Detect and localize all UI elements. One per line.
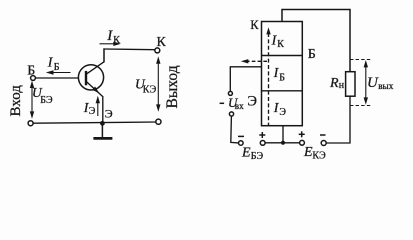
ground <box>93 123 112 138</box>
wire base to input <box>230 67 261 91</box>
svg-text:вых: вых <box>378 81 394 91</box>
node К label <box>250 18 259 32</box>
wire base <box>36 77 80 79</box>
node Б label <box>27 64 35 79</box>
svg-text:Б: Б <box>54 62 60 73</box>
node Э label <box>105 107 113 121</box>
terminal input lower <box>229 112 233 116</box>
voltage arrow U_БЭ <box>30 81 34 119</box>
current arrow I_Б <box>46 70 71 74</box>
wire emitter riser <box>282 126 284 143</box>
terminal input upper <box>228 91 232 95</box>
wire input to Е_БЭ minus <box>231 116 239 143</box>
label U_КЭ <box>135 77 157 96</box>
svg-text:Э: Э <box>247 93 257 109</box>
terminal collector (output top) <box>155 48 160 53</box>
svg-text:К: К <box>113 35 120 46</box>
label R_н <box>329 76 345 91</box>
terminal Е_БЭ plus <box>260 141 265 146</box>
label minus of Е_КЭ <box>320 134 326 136</box>
label Е_БЭ <box>241 145 264 162</box>
terminal output bottom <box>156 119 161 124</box>
current arrow I_Э <box>96 96 100 116</box>
svg-text:I: I <box>47 56 54 71</box>
voltage arrow U_вых <box>364 60 368 105</box>
label I_Э <box>273 101 287 118</box>
label I_К <box>106 28 120 46</box>
label plus of Е_БЭ <box>259 132 265 138</box>
node Б label <box>308 47 316 62</box>
label U_БЭ <box>32 85 53 106</box>
svg-text:н: н <box>339 80 345 91</box>
terminal Е_БЭ minus <box>239 141 244 146</box>
svg-text:U: U <box>367 75 379 91</box>
svg-text:Э: Э <box>105 107 113 121</box>
svg-text:Э: Э <box>279 107 286 118</box>
current path dashed vertical <box>266 27 270 125</box>
wire emitter vertical <box>102 96 104 123</box>
dashed measure line bottom <box>350 105 372 107</box>
junction dot <box>281 141 285 145</box>
svg-text:Б: Б <box>279 72 285 83</box>
current arrow I_Б dashed (to base) <box>241 59 269 63</box>
transistor structure box <box>262 22 303 126</box>
transistor VT1 circle <box>78 65 103 90</box>
label plus of Е_КЭ <box>299 131 305 137</box>
svg-text:Э: Э <box>89 106 96 117</box>
node Э label <box>247 93 257 109</box>
wire Е_КЭ to load <box>326 96 350 143</box>
svg-text:БЭ: БЭ <box>40 95 53 106</box>
svg-text:Вход: Вход <box>8 85 24 117</box>
label Е_КЭ <box>303 145 326 162</box>
label -U_вх <box>220 95 245 111</box>
svg-text:К: К <box>250 18 259 32</box>
wire collector horizontal <box>103 48 155 51</box>
transistor VT1 base bar <box>85 71 87 85</box>
svg-text:Б: Б <box>308 47 316 62</box>
node К label <box>157 35 167 50</box>
svg-text:Выход: Выход <box>164 65 181 108</box>
label Вход (rotated) <box>8 85 24 117</box>
svg-text:вх: вх <box>235 101 244 111</box>
terminal base (input top) <box>31 76 36 81</box>
svg-text:Е: Е <box>241 145 251 160</box>
junction divider base-emitter <box>262 90 303 92</box>
svg-text:БЭ: БЭ <box>251 151 264 162</box>
terminal Е_КЭ minus <box>321 141 326 146</box>
voltage arrow U_КЭ <box>156 56 160 111</box>
terminal Е_КЭ plus <box>300 140 305 145</box>
resistor R_н <box>346 72 355 97</box>
current arrow I_К <box>100 42 122 46</box>
svg-text:R: R <box>329 76 339 91</box>
transistor VT1 emitter lead with arrow <box>86 81 103 96</box>
dashed measure line top <box>350 59 372 61</box>
label I_Б <box>47 56 60 73</box>
wire bottom rail <box>33 122 156 123</box>
label U_вых <box>367 75 394 91</box>
svg-text:КЭ: КЭ <box>312 151 326 162</box>
wire load to top <box>282 10 350 72</box>
svg-text:I: I <box>106 28 113 44</box>
label I_К <box>271 33 285 50</box>
terminal emitter-common (input bottom) <box>28 121 33 126</box>
wire emitter bottom <box>265 142 299 144</box>
label Выход (rotated) <box>164 65 181 108</box>
label I_Б <box>273 66 286 83</box>
junction dot <box>100 121 105 126</box>
transistor VT1 collector lead <box>86 48 104 74</box>
label minus of Е_БЭ <box>238 135 244 137</box>
svg-text:КЭ: КЭ <box>143 85 157 96</box>
junction divider collector-base <box>262 55 303 57</box>
label I_Э <box>83 101 96 117</box>
svg-text:К: К <box>277 39 284 50</box>
